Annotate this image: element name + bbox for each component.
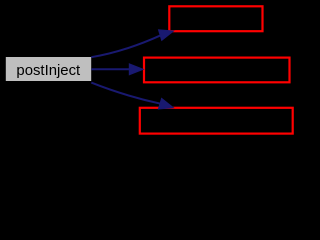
svg-text:postInject: postInject bbox=[16, 63, 81, 79]
edge 2: postInject -> box 2 (wire) bbox=[91, 64, 143, 75]
edge 3: postInject -> box 3 (wire) bbox=[91, 83, 173, 109]
edge 1: postInject -> box 1 (wire) bbox=[91, 30, 173, 57]
called-function box 1 (top, truncated red) bbox=[169, 6, 262, 31]
arrowhead 3 bbox=[158, 98, 173, 109]
node postInject (current function, grey filled) bbox=[5, 56, 92, 82]
called-function box 2 (middle, truncated red) bbox=[144, 58, 290, 83]
arrowhead 2 bbox=[129, 64, 143, 75]
arrowhead 1 bbox=[159, 30, 174, 41]
called-function box 3 (bottom, truncated red) bbox=[140, 108, 293, 134]
